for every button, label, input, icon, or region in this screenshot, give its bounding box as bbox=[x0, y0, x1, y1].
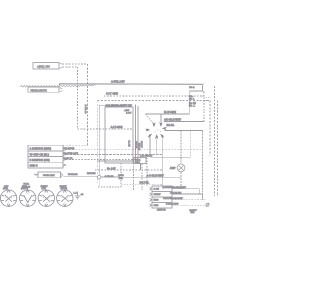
module box M1 (solenoid) bbox=[105, 107, 133, 163]
svg-text:L-1: L-1 bbox=[74, 192, 78, 194]
svg-text:(AM-F): (AM-F) bbox=[21, 187, 28, 190]
connector block J4 (bottom right) bbox=[150, 186, 173, 208]
terminal T1 bbox=[153, 124, 155, 126]
wire W7 vertical from J1 pin1 down to J3 bbox=[86, 64, 88, 145]
svg-text:GY+(ORN): GY+(ORN) bbox=[64, 148, 75, 150]
svg-text:GRD: GRD bbox=[154, 205, 159, 207]
terminal T3 bbox=[164, 128, 166, 130]
dashed harness box right edge bbox=[209, 101, 211, 156]
wire long vertical x162 bbox=[161, 138, 163, 189]
rotor contact dots bbox=[156, 128, 159, 131]
dashed stub top right bbox=[203, 92, 205, 122]
wire below meter bbox=[180, 172, 182, 189]
connector bracket CN2 (right plug jaws) bbox=[202, 84, 204, 96]
ignition key position view P2 bbox=[20, 190, 36, 206]
wire below node dashed bbox=[98, 179, 100, 187]
wire W4 wavy continues to yellow line bbox=[60, 85, 96, 87]
wire dashed h170 bbox=[95, 169, 163, 171]
ignition key position view P4 bbox=[57, 190, 73, 206]
svg-text:C-LT-GRN-RD-WHT: C-LT-GRN-RD-WHT bbox=[163, 198, 184, 200]
svg-text:(AM): (AM) bbox=[3, 187, 8, 190]
terminal T7 bbox=[147, 129, 149, 131]
svg-text:A IGNITION (RED): A IGNITION (RED) bbox=[30, 147, 52, 151]
svg-text:B-RE TO: B-RE TO bbox=[64, 158, 73, 160]
svg-text:TP SUP ON (BL): TP SUP ON (BL) bbox=[30, 152, 50, 156]
svg-text:RED-W: RED-W bbox=[137, 143, 139, 150]
wire J4 row3 dashed bbox=[172, 199, 206, 201]
svg-text:B-LT-BL: B-LT-BL bbox=[140, 180, 150, 184]
svg-text:MAG: MAG bbox=[154, 199, 159, 202]
ground symbol right of P4 bbox=[75, 192, 80, 199]
svg-text:BL-RD: BL-RD bbox=[127, 141, 129, 148]
wire dashed h187 bbox=[98, 186, 121, 188]
wire corner h161 bbox=[98, 160, 135, 162]
connector block J3 (left ignition harness) bbox=[28, 145, 66, 168]
svg-text:START: START bbox=[154, 193, 162, 196]
svg-text:(ST): (ST) bbox=[42, 188, 47, 190]
wire row3 dashed bbox=[66, 158, 136, 160]
svg-text:SW/TCH: SW/TCH bbox=[157, 210, 166, 212]
wire W12 switch feed top bbox=[146, 113, 190, 115]
wire vertical v121 bbox=[120, 163, 122, 187]
svg-text:FUSE LINK: FUSE LINK bbox=[43, 175, 55, 177]
svg-text:A-YELLOW: A-YELLOW bbox=[111, 80, 125, 84]
dashed harness box (main) top edge bbox=[98, 100, 210, 102]
wire J4 row4 dashed bbox=[172, 204, 206, 206]
terminal T5 bbox=[156, 136, 158, 138]
node circle N2 bbox=[97, 175, 100, 178]
terminal T4 bbox=[149, 135, 151, 137]
svg-text:B-GROUND-BLK-WHT: B-GROUND-BLK-WHT bbox=[163, 187, 187, 189]
svg-text:A-C-BLK-WHT: A-C-BLK-WHT bbox=[147, 173, 165, 177]
wire row1 dashed bbox=[66, 149, 201, 151]
svg-text:27A: 27A bbox=[191, 211, 195, 214]
hour meter M2 bbox=[177, 164, 185, 172]
wire vertical v133 bbox=[133, 163, 135, 190]
svg-text:+B: +B bbox=[81, 194, 84, 196]
terminal T6 bbox=[161, 135, 163, 137]
svg-text:B+ ⊥: B+ ⊥ bbox=[189, 104, 196, 108]
wire W15 bbox=[165, 130, 203, 132]
svg-text:BLA/YELLOW: BLA/YELLOW bbox=[64, 152, 79, 155]
wire verticals right of module bbox=[135, 105, 137, 164]
wire fuse to node bbox=[64, 175, 98, 177]
svg-text:+(NO) | SH: +(NO) | SH bbox=[37, 64, 50, 68]
dashed right margin wire bbox=[214, 86, 216, 196]
wire W11 dashed into box bbox=[78, 128, 134, 130]
wire W2 dashed from J1 pin2 bbox=[63, 66, 78, 68]
wire vertical V202 bbox=[202, 131, 204, 200]
wire J4 row1 bbox=[172, 189, 199, 194]
svg-text:NO A: NO A bbox=[189, 86, 195, 89]
svg-text:GRN-BL: GRN-BL bbox=[135, 141, 137, 150]
wire W1 dashed from J1 pin1 bbox=[63, 63, 88, 65]
svg-text:RA-BL: RA-BL bbox=[167, 123, 175, 127]
wire corner v161 bbox=[140, 164, 142, 171]
wire vertical v147 bbox=[146, 158, 148, 187]
svg-text:C-LT GRN: C-LT GRN bbox=[106, 92, 118, 96]
wire W3 wavy line over J2 bbox=[20, 86, 59, 88]
connector block J1 (top headlight plug) bbox=[33, 63, 62, 70]
wire h157 bbox=[151, 156, 191, 158]
wire W6 vertical dashed from J1 pin2 bbox=[77, 67, 79, 129]
wire W5 A-YELLOW main horizontal bbox=[60, 84, 203, 86]
svg-text:A LT-BLUE: A LT-BLUE bbox=[170, 191, 182, 194]
svg-text:TDC: TDC bbox=[136, 162, 141, 164]
wires from switch bottom bbox=[149, 138, 151, 155]
dashed right edge wire2 bbox=[217, 101, 219, 197]
wire T2 up bbox=[160, 114, 162, 122]
ignition key position view P3 bbox=[38, 190, 54, 206]
wire J4 row2 bbox=[172, 194, 203, 200]
svg-text:(MAG): (MAG) bbox=[61, 187, 68, 190]
wire dashed h184 bbox=[121, 183, 163, 185]
svg-text:B IGNITION (OR): B IGNITION (OR) bbox=[30, 158, 50, 162]
terminal T2 bbox=[160, 124, 162, 126]
ignition switch S1 terminal cluster bbox=[146, 122, 167, 138]
fuse F1 box bbox=[34, 172, 63, 178]
terminal ring TR1 bbox=[206, 203, 210, 207]
svg-text:AMP: AMP bbox=[170, 166, 176, 170]
wire W14 bbox=[164, 121, 204, 123]
svg-text:B-LT-GRN: B-LT-GRN bbox=[164, 110, 176, 114]
wire W8 dashed C-LT GRN bbox=[104, 95, 202, 97]
svg-text:A-YEL-14: A-YEL-14 bbox=[84, 105, 87, 115]
svg-text:GRD S: GRD S bbox=[30, 164, 38, 168]
svg-text:HEADL/GHTS: HEADL/GHTS bbox=[31, 88, 48, 92]
connector block J2 (headlights) bbox=[28, 87, 62, 92]
wire vertical V-amp upper bbox=[180, 131, 182, 164]
wire W13 vertical link bbox=[188, 91, 190, 114]
svg-text:A AM: A AM bbox=[154, 188, 160, 191]
wire h177 bbox=[101, 176, 181, 178]
svg-text:SOLENOID-SH/FT SW: SOLENOID-SH/FT SW bbox=[106, 103, 133, 107]
relay box K1 small bbox=[134, 158, 146, 164]
svg-text:A-GY: A-GY bbox=[126, 112, 132, 115]
wire W9 top-right NO line bbox=[189, 90, 202, 92]
wire vertical to node circle bbox=[98, 105, 100, 175]
svg-text:A-LT-GRN: A-LT-GRN bbox=[111, 125, 123, 129]
wire row2 bbox=[66, 154, 162, 156]
svg-text:W-TR-RD: W-TR-RD bbox=[68, 174, 78, 176]
dashed harness box left edge bbox=[97, 101, 99, 184]
wire diagonal to T1 bbox=[146, 114, 154, 123]
svg-text:D-BLK-WHT: D-BLK-WHT bbox=[166, 204, 179, 206]
svg-text:A/C-BLK-WHT: A/C-BLK-WHT bbox=[164, 118, 182, 122]
node N1 corner wire bbox=[99, 104, 128, 106]
wire vertical V191 bbox=[190, 131, 192, 157]
svg-text:BLK-W: BLK-W bbox=[140, 141, 142, 148]
tick marks right bbox=[206, 98, 211, 101]
ignition key position view P1 bbox=[0, 190, 16, 206]
svg-text:BROWN: BROWN bbox=[87, 173, 96, 175]
wire dashed into J3 top corner bbox=[63, 144, 87, 146]
wire vertical v142 bbox=[141, 164, 143, 190]
